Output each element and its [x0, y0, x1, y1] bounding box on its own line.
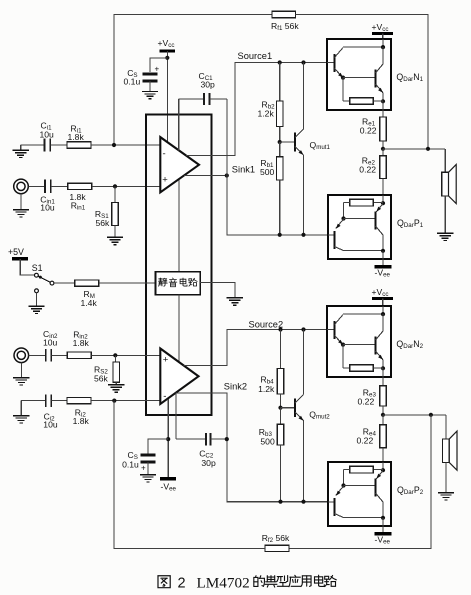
- svg-text:Source1: Source1: [238, 51, 273, 61]
- svg-text:0.1u: 0.1u: [124, 77, 141, 87]
- node output ch1: [381, 147, 385, 151]
- svg-text:Rf2 56k: Rf2 56k: [262, 533, 290, 544]
- svg-text:LM4702: LM4702: [197, 575, 250, 592]
- svg-text:500: 500: [260, 437, 275, 447]
- ground row1 left: [20, 145, 22, 150]
- svg-text:Source2: Source2: [249, 319, 284, 329]
- transistor Qmut2: [303, 330, 305, 395]
- ground below Rs1: [107, 236, 123, 238]
- resistor Rm 1.4k: [75, 280, 99, 286]
- svg-text:+: +: [141, 464, 146, 473]
- svg-text:0.1u: 0.1u: [122, 460, 139, 470]
- QN1 internals: [327, 39, 385, 110]
- svg-text:56k: 56k: [96, 218, 111, 228]
- resistor Re1 0.22: [382, 110, 384, 117]
- wire +5V to switch: [20, 259, 34, 275]
- speaker LS1: [444, 149, 446, 173]
- op-amp U1B triangle: [160, 349, 198, 405]
- input jack IN2: [14, 348, 29, 363]
- svg-text:10u: 10u: [43, 337, 58, 347]
- wire Vee pin of IC: [167, 399, 169, 477]
- node Qmut2 base: [278, 406, 282, 410]
- node Rs1 junction: [113, 184, 117, 188]
- svg-text:0.22: 0.22: [359, 165, 376, 175]
- resistor Rb1 500: [279, 142, 281, 157]
- svg-text:1.8k: 1.8k: [73, 338, 90, 348]
- compensation pin stub op1: [178, 99, 180, 151]
- darlington NPN power block QN1 box: [327, 39, 391, 110]
- mute block label jingyindianlu: [159, 278, 168, 286]
- wire mute gnd pin: [200, 282, 235, 297]
- node Rb4 top: [278, 327, 282, 331]
- wire sink riser ch1: [227, 99, 328, 235]
- svg-text:0.22: 0.22: [358, 397, 375, 407]
- svg-text:-: -: [163, 391, 166, 402]
- resistor Rin2 1.8k: [67, 352, 91, 358]
- op2 sink wire: [176, 393, 328, 502]
- node Rs2 junction: [113, 353, 117, 357]
- wire Cin1-Rin1: [51, 185, 68, 187]
- wire to Cs: [150, 58, 167, 72]
- capacitor Cin1 10u: [44, 180, 46, 193]
- resistor Ri2 1.8k: [67, 397, 91, 403]
- resistor Re4 0.22: [382, 415, 384, 425]
- wire Cs2 to ground: [147, 462, 149, 475]
- ground below jack IN2: [20, 363, 22, 378]
- wire Rin2 to op2 + input: [91, 354, 160, 356]
- wire Rin1 to op-amp non-inverting input: [92, 185, 161, 187]
- node Qmut1 emitter on sink wire: [301, 233, 305, 237]
- svg-text:S1: S1: [32, 263, 43, 273]
- svg-text:+5V: +5V: [8, 247, 24, 257]
- svg-text:10u: 10u: [40, 203, 55, 213]
- svg-text:Sink1: Sink1: [232, 165, 255, 175]
- darlington PNP power block QP1 box: [328, 195, 391, 259]
- capacitor Cin2 10u: [45, 349, 47, 362]
- svg-text:1.2k: 1.2k: [258, 109, 275, 119]
- wire jack to Cin1: [28, 185, 45, 187]
- wire row1 left: [21, 144, 44, 146]
- node Rb1 bottom on sink wire: [278, 233, 282, 237]
- wire Vcc pin into IC: [166, 51, 168, 142]
- capacitor Ci2 10u: [45, 394, 47, 407]
- svg-text:1.2k: 1.2k: [258, 384, 275, 394]
- node Cs2 tap: [166, 437, 170, 441]
- transistor Qmut1: [303, 63, 305, 130]
- resistor Rb4 1.2k: [280, 330, 282, 369]
- mute line op1: [178, 180, 180, 272]
- svg-text:10u: 10u: [40, 130, 55, 140]
- capacitor Cc2 30p: [205, 433, 207, 445]
- node Cs tap: [165, 56, 169, 60]
- svg-text:1.4k: 1.4k: [81, 298, 98, 308]
- node feedback/input junction ch1: [112, 143, 116, 147]
- wire switch to Rm: [54, 282, 75, 284]
- svg-text:Rf1 56k: Rf1 56k: [271, 21, 299, 32]
- op-amp U1A triangle: [160, 137, 199, 192]
- ground below switch: [28, 305, 44, 307]
- node feedback tap ch2: [429, 413, 433, 417]
- svg-text:+: +: [162, 175, 168, 186]
- wire Cs to ground: [149, 81, 151, 92]
- svg-text:1.8k: 1.8k: [73, 416, 90, 426]
- wire Cin2-Rin2: [51, 354, 67, 356]
- ground speaker1: [437, 232, 453, 234]
- wire speaker2 to ground: [445, 463, 447, 493]
- wire to Cs2: [148, 439, 168, 454]
- resistor Rb2 1.2k: [279, 63, 281, 102]
- ground below Cs2: [140, 474, 156, 476]
- -Vee supply for QP2: [375, 532, 392, 535]
- node feedback junction ch2: [112, 399, 116, 403]
- ground below Rs2: [108, 384, 124, 386]
- svg-text:10u: 10u: [43, 420, 58, 430]
- wire Source1 from op1: [186, 63, 327, 156]
- wire speaker1 to ground: [444, 196, 446, 233]
- node Qmut1 collector top: [301, 60, 305, 64]
- wire comp pin2 to Cc2: [176, 438, 206, 440]
- ground speaker2: [438, 492, 454, 494]
- resistor Rs1 56k: [114, 186, 116, 202]
- svg-text:Sink2: Sink2: [224, 382, 247, 392]
- darlington NPN power block QN2 box: [327, 306, 391, 377]
- svg-text:0.22: 0.22: [360, 126, 377, 136]
- mute line op2: [178, 295, 180, 362]
- wire Rm to mute pin: [99, 282, 156, 284]
- svg-text:2: 2: [178, 576, 186, 592]
- wire Ci1-Ri1: [50, 144, 67, 146]
- resistor Re3 0.22: [382, 377, 384, 386]
- wire comp pin to Cc1: [179, 98, 204, 100]
- resistor Re2 0.22: [382, 149, 384, 156]
- wire Rf2 to input junction: [114, 401, 265, 549]
- QP1 internals: [328, 195, 385, 266]
- node Sink1/Cc1 junction: [225, 173, 229, 177]
- resistor Rf2 56k: [265, 545, 289, 551]
- node feedback tap ch1: [426, 147, 430, 151]
- wire output node ch2: [383, 414, 446, 416]
- capacitor Cs 0.1u bypass top: [143, 72, 158, 75]
- ground below Cs top: [142, 91, 158, 93]
- resistor Rf1 56k: [272, 11, 296, 17]
- -Vee supply for QP1: [375, 265, 392, 268]
- input jack IN1: [14, 179, 29, 194]
- node Qmut2 emitter on sink2 wire: [301, 500, 305, 504]
- svg-text:500: 500: [260, 167, 275, 177]
- svg-text:-: -: [163, 149, 166, 160]
- wire jack2 to Cin2: [29, 354, 46, 356]
- compensation pin stub op2: [175, 393, 177, 439]
- wire feedback loop ch2 bottom right: [289, 415, 431, 549]
- resistor Ri1 1.8k: [67, 142, 91, 148]
- svg-text:1.8k: 1.8k: [68, 132, 85, 142]
- wire Ri1 to op-amp inverting input: [91, 144, 160, 146]
- svg-text:30p: 30p: [201, 458, 216, 468]
- wire Sink1 from op1: [184, 175, 227, 177]
- wire Cc1 to sink riser: [210, 98, 227, 100]
- capacitor Cs 0.1u bypass bottom: [141, 454, 156, 457]
- mute circuit block: [156, 272, 201, 295]
- wire feedback loop ch1 top: [114, 15, 272, 146]
- wire output node ch1: [383, 148, 445, 150]
- wire Ci2-Ri2: [51, 400, 67, 402]
- wire Ri2 to op2 - input: [91, 400, 160, 402]
- switch throw to ground: [35, 289, 39, 293]
- svg-text:30p: 30p: [201, 80, 216, 90]
- -Vee supply IC: [160, 477, 176, 480]
- IC LM4702 outline box: [146, 115, 212, 416]
- wire Rf1 to output node: [296, 15, 429, 149]
- node Qmut1 base: [278, 140, 282, 144]
- resistor Rin1 1.8k: [68, 183, 92, 189]
- resistor Rs2 56k: [114, 355, 116, 362]
- svg-text:+: +: [163, 355, 169, 366]
- op2 source wire: [184, 330, 327, 366]
- darlington PNP power block QP2 box: [328, 462, 391, 526]
- capacitor Cc1 30p: [203, 93, 205, 105]
- ground below jack IN1: [20, 194, 22, 210]
- resistor Rb3 500: [280, 408, 282, 425]
- node Rb3 bottom on sink2 wire: [278, 500, 282, 504]
- ground mute pin: [227, 297, 243, 299]
- svg-text:56k: 56k: [94, 374, 109, 384]
- capacitor Ci1 10u: [44, 139, 46, 152]
- QN2 internals: [327, 306, 385, 377]
- QP2 internals: [328, 462, 385, 533]
- svg-text:+: +: [155, 65, 160, 74]
- ground row4 left: [20, 401, 22, 416]
- node Qmut2 collector top: [301, 327, 305, 331]
- speaker LS2: [445, 415, 447, 439]
- svg-text:0.22: 0.22: [357, 436, 374, 446]
- node Rb2 top: [278, 60, 282, 64]
- wire Cc2 to sink riser ch2: [210, 438, 226, 440]
- node output ch2: [381, 413, 385, 417]
- node Cc2/sink junction: [225, 437, 229, 441]
- wire row4 left: [21, 400, 45, 402]
- caption figure title: [158, 576, 170, 588]
